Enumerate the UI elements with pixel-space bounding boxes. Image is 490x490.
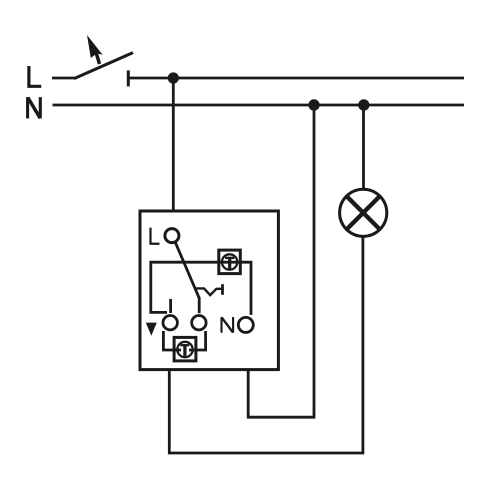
junction dot on N line (neutral drop) [308,99,319,110]
switch S1 blade [74,53,133,79]
junction dot on N line (lamp drop) [358,99,369,110]
wire from NC stub through top screw terminal to NO [151,262,251,315]
wire neutral from N line to box bottom [248,105,314,417]
screw terminal top right [219,250,241,274]
relay insert box outline [140,211,278,370]
wire N line [53,104,465,107]
bracket blade pole to bottom terminal [189,331,206,350]
lamp E1 [340,189,387,236]
label N (neutral) [28,97,41,118]
switch actuation arrow [87,35,103,64]
terminal circle L (insert) [165,229,179,243]
wire from lamp bottom around to box bottom [169,237,363,454]
terminal circle NO [238,317,253,332]
pushbutton latch mechanism [195,284,222,295]
switch S1 fixed contact [127,70,130,86]
wire L line right segment [128,77,464,80]
fixed contact tick above left terminal [169,299,172,313]
label L (phase) [29,66,41,86]
wire from L dot down to insert L terminal [172,78,175,212]
screw terminal bottom [174,337,196,361]
junction dot on L line [168,72,179,83]
switch blade inside insert [176,243,200,313]
wire L left segment [52,77,75,80]
wire from N line down to lamp [362,105,365,190]
terminal circle blade pole [192,316,206,330]
label L (insert input) [151,228,160,244]
direction triangle marker [146,323,157,336]
label N of NO [222,317,234,333]
terminal circle left pole [163,316,177,330]
bracket left pole to bottom terminal [163,331,181,350]
